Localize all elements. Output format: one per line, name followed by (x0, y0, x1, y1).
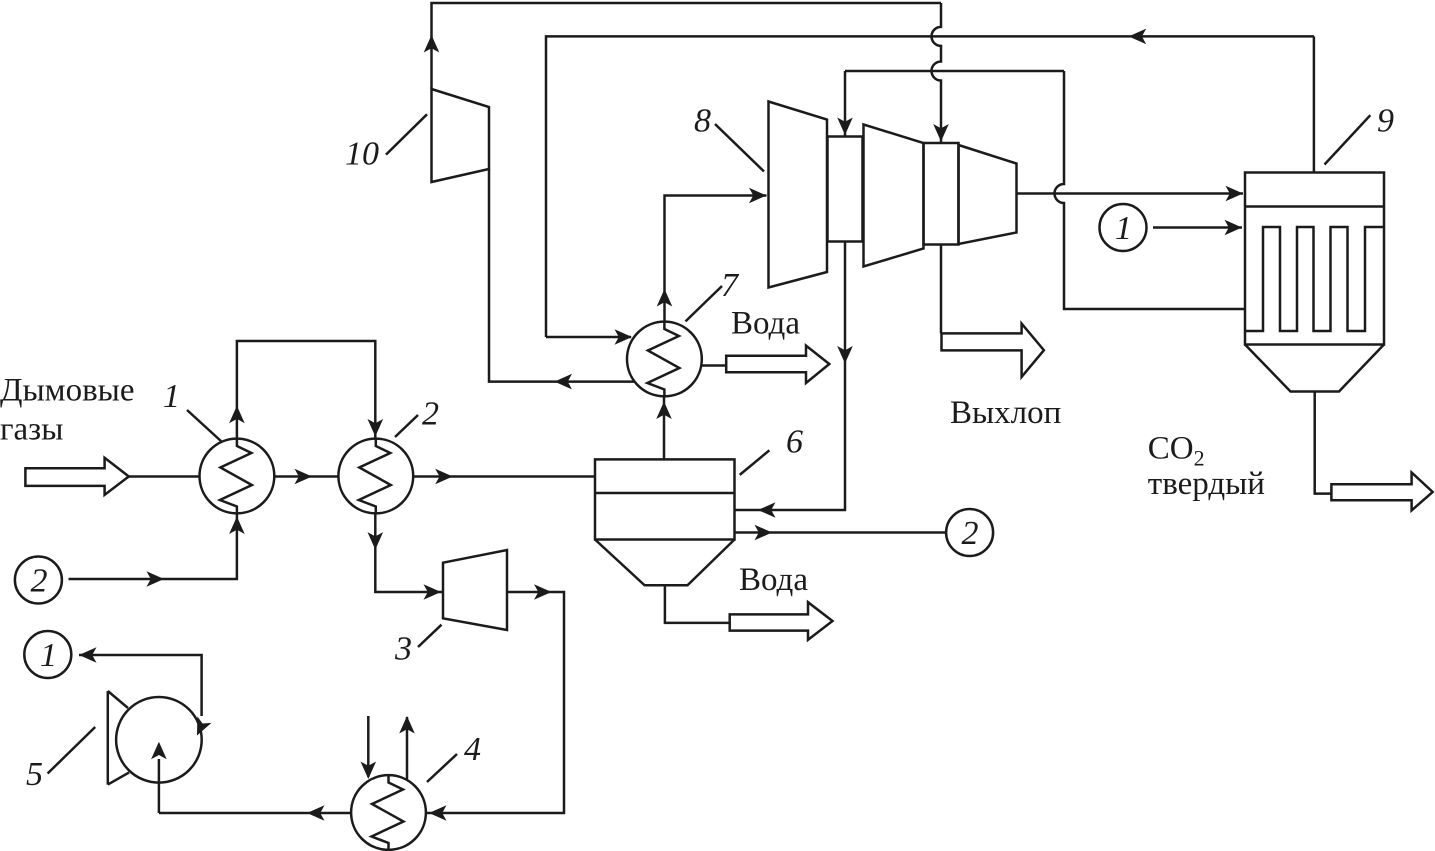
arrow left into exchanger 4 (429, 805, 447, 821)
leader line label 3 (418, 625, 442, 647)
wire: cooling water into exchanger 4 (367, 716, 370, 777)
svg-text:9: 9 (1377, 103, 1394, 140)
turbine 10 (432, 89, 490, 182)
svg-text:1: 1 (163, 378, 180, 415)
wire: exchanger 4 to pump 5 (159, 812, 351, 815)
arrow up on link line (229, 406, 245, 424)
compressor 3 (443, 550, 507, 630)
compressor 8 stage 1 (769, 102, 828, 288)
wire: pump 5 outlet to circled 1 (79, 655, 202, 716)
wire: separator 6 bottom water line (665, 585, 730, 623)
compressor 8 stage 2 (864, 125, 924, 267)
compressor 8 stage 3 (959, 145, 1017, 244)
leader line label 9 (1325, 115, 1371, 164)
desublimator 9 (1245, 173, 1384, 392)
leader line label 2 (395, 415, 418, 437)
arrow right into vessel 9 top port (1226, 186, 1244, 202)
svg-text:4: 4 (464, 731, 481, 768)
leader line label 8 (715, 124, 764, 172)
arrow right toward circled 2 (755, 525, 773, 541)
svg-text:Вода: Вода (739, 562, 808, 598)
wire: circled 2 to exchanger 1 bottom (69, 513, 237, 579)
wire: into heat exchanger 7 left (546, 336, 631, 339)
leader line label 5 (48, 727, 96, 774)
arrow right into compressor stage 1 (749, 188, 767, 204)
wire: turbine 10 outlet up to top line (432, 3, 942, 89)
arrow right into vessel 9 second port (1225, 220, 1243, 236)
wire: compressor 8 outlet to vessel 9 (1017, 192, 1244, 195)
svg-text:2: 2 (31, 563, 48, 600)
arrow right after exchanger 2 (435, 469, 453, 485)
circled node 2 (right) (946, 509, 993, 556)
wire: exchanger 2 to separator 6 (413, 475, 595, 478)
wire: vertical x=1064 with hop, to vessel 9 lower port (1055, 71, 1246, 309)
block arrow: water out of separator 6 (730, 602, 833, 640)
arrow up into exchanger 7 bottom (656, 402, 672, 420)
arrow right into exchanger 7 (615, 329, 633, 345)
wire: exchanger 2 bottom to compressor 3 (375, 513, 443, 592)
svg-text:Дымовые: Дымовые (0, 373, 134, 409)
leader line label 4 (427, 754, 457, 782)
compressor 8 intercooler 1 (828, 137, 863, 242)
leader line label 7 (686, 286, 723, 321)
wire: line y=71 from intercooler 1 to vessel 9 lower port (845, 70, 1064, 73)
svg-text:6: 6 (786, 424, 803, 461)
svg-text:10: 10 (345, 136, 379, 173)
arrow down into exchanger 2 top (368, 419, 384, 437)
arrow down below exchanger 2 (368, 532, 384, 550)
svg-text:8: 8 (694, 103, 711, 140)
svg-text:Выхлоп: Выхлоп (950, 395, 1061, 431)
heat exchanger 4 (351, 775, 426, 850)
block arrow: flue gas inlet (25, 458, 128, 495)
arrow up toward compressor inlet (657, 289, 673, 307)
wire: heat exchanger 7 right to water arrow (701, 364, 726, 367)
svg-text:газы: газы (0, 412, 63, 448)
arrow up inside pump 5 (151, 742, 167, 760)
wire: separator 6 top to heat exchanger 7 bottom (663, 396, 666, 459)
arrow left toward turbine 10 (555, 374, 573, 390)
wire: intercooler 2 bottom to exhaust arrow (940, 245, 943, 334)
arrow down into pump 5 (190, 716, 212, 738)
arrow up above turbine 10 (424, 35, 440, 53)
leader line label 10 (386, 114, 427, 154)
compressor 8 intercooler 2 (924, 143, 959, 245)
wire: return line y=36 from desublimator to x=546 (546, 36, 1314, 337)
svg-text:1: 1 (1115, 210, 1132, 247)
block arrow: exhaust (942, 324, 1044, 377)
arrow right between exchangers 1 and 2 (295, 469, 313, 485)
arrow right into compressor 3 (424, 584, 442, 600)
wire: vessel 9 bottom CO2 line (1315, 392, 1332, 494)
svg-text:7: 7 (721, 267, 740, 304)
pump 5 (108, 691, 202, 785)
arrow left toward pump 5 (307, 805, 325, 821)
wire: heat exchanger 7 top to compressor inlet (665, 196, 767, 322)
wire: vertical into intercooler 1 top (844, 71, 847, 137)
block arrow: water out of exchanger 7 (726, 346, 829, 383)
heat exchanger 2 (338, 439, 413, 514)
arrow left into circled 1 (79, 647, 97, 663)
arrow up into exchanger 1 bottom (229, 517, 245, 535)
svg-text:1: 1 (40, 637, 57, 674)
wire: cooling water out of exchanger 4 (406, 717, 409, 780)
wire: link exchanger 1 top to exchanger 2 top (237, 341, 375, 439)
circled node 1 (left) (24, 631, 71, 678)
arrow right from circled 2 (147, 571, 165, 587)
block arrow: solid CO2 out (1331, 473, 1432, 511)
wire: compressor 3 outlet down to exchanger 4 (426, 592, 564, 813)
leader line label 6 (740, 450, 770, 475)
arrow right after compressor 3 (534, 584, 552, 600)
arrow up cooling water out (399, 716, 415, 734)
arrow left on return line y=36 (1129, 29, 1147, 45)
separator 6 (595, 459, 735, 585)
arrow down on line to separator 6 (837, 346, 853, 364)
arrow down into intercooler 1 (837, 118, 853, 136)
circled node 2 (left) (15, 557, 62, 604)
circled node 1 (right) (1100, 204, 1147, 251)
wire: vessel 9 top feed vertical (1313, 36, 1316, 172)
wire: vertical drop x=941 with two hops into intercooler 2 (932, 3, 941, 143)
wire: intercooler 1 bottom down to separator 6 right port (735, 242, 846, 511)
arrow down into intercooler 2 (933, 124, 949, 142)
arrow down cooling water in (361, 762, 377, 780)
wire: heat exchanger 7 to turbine 10 (489, 169, 635, 382)
wire: separator 6 right out to circled 2 (735, 531, 948, 534)
heat exchanger 7 (627, 322, 702, 397)
svg-text:2: 2 (422, 396, 439, 433)
heat exchanger 1 (200, 439, 275, 514)
svg-text:твердый: твердый (1148, 466, 1265, 502)
svg-text:5: 5 (26, 756, 43, 793)
wire: flue gas main line into exchanger 1 (129, 475, 200, 478)
svg-text:3: 3 (394, 631, 412, 668)
svg-text:2: 2 (962, 515, 979, 552)
leader line label 1 (187, 410, 222, 442)
svg-text:Вода: Вода (731, 306, 800, 342)
arrow left into separator 6 right port (758, 502, 776, 518)
wire: circled 1 to vessel 9 second port (1153, 226, 1242, 229)
wire: exchanger 1 to exchanger 2 (274, 475, 338, 478)
wire: pump 5 inlet riser (158, 759, 161, 813)
